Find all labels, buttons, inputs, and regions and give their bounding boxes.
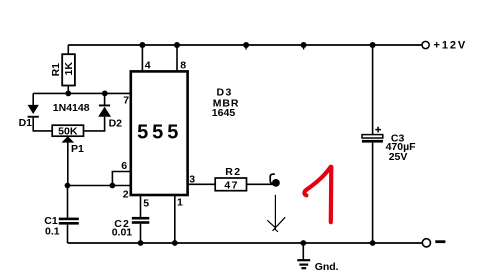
wire C3 top lead [372,45,374,135]
junction dot pin1/rail [172,240,178,246]
wire pin7 node [33,92,131,94]
wire R1 top lead [67,45,69,54]
svg-text:D1: D1 [19,117,33,129]
wire pin6 stub [112,172,130,186]
svg-text:47: 47 [224,179,239,191]
red annotation numeral 1 [304,167,331,222]
svg-text:+12V: +12V [434,40,468,52]
terminal minus [422,239,445,247]
svg-text:50K: 50K [58,126,78,138]
junction dot C2/rail [138,240,144,246]
wire pin3 to R2 [188,183,216,185]
wire pin4 stub [141,45,143,71]
junction dot rail/pin4 [139,42,145,48]
wire C1 top lead [67,186,69,218]
potentiometer P1 body 50K [52,125,83,136]
ground [297,243,310,268]
terminal +12V [422,40,467,52]
capacitor C1 [59,218,79,243]
wire pin2 node [68,185,131,187]
svg-text:555: 555 [137,122,182,144]
wire pin5 stub [140,195,142,217]
svg-text:D2: D2 [109,118,123,130]
junction dot C3/rail [370,240,376,246]
svg-text:Gnd.: Gnd. [315,261,339,273]
svg-text:4: 4 [145,60,151,72]
junction dot rail A [243,42,249,50]
junction dot rail/pin8 [174,42,180,48]
resistor R2 [215,178,246,191]
wire pin8 stub [176,45,178,71]
svg-text:25V: 25V [389,151,408,163]
diode D2 [98,93,111,130]
junction dot ground/rail [300,240,306,246]
svg-text:0.01: 0.01 [112,227,133,239]
svg-text:P1: P1 [71,143,84,155]
pot wiper arrow [61,136,74,185]
svg-text:2: 2 [123,188,129,200]
svg-text:0.1: 0.1 [45,226,60,238]
svg-text:6: 6 [121,160,127,172]
arrow annotation down [267,195,285,232]
junction dot rail/C3 [370,42,376,48]
svg-text:1N4148: 1N4148 [53,102,90,114]
wire top +12V rail [68,44,422,46]
junction dot R1 bottom [65,91,71,97]
resistor R1 [62,54,75,85]
op-amp U1 555 IC body [131,71,188,195]
svg-text:5: 5 [143,198,149,210]
capacitor C2 [132,217,150,243]
svg-text:1K: 1K [63,62,75,76]
svg-text:R1: R1 [50,63,62,77]
svg-text:7: 7 [123,95,129,107]
capacitor C3 polarized [362,127,383,243]
wire bottom rail [68,242,423,244]
wire pin1 stub [174,195,176,243]
node output bracket glyph [270,174,275,184]
junction dot rail B [301,42,307,50]
svg-text:8: 8 [180,59,186,71]
wire D2 to pot [84,130,106,132]
wire R2 to output node [247,183,274,185]
node output dot [272,179,280,187]
diode D1 [28,93,39,130]
junction dot wiper/C1 [65,183,71,189]
svg-text:R2: R2 [225,166,241,178]
svg-text:1: 1 [177,196,183,208]
wire D1 to pot [33,130,53,132]
junction dot pin6 jog [110,183,116,189]
svg-text:1645: 1645 [212,107,236,119]
wire R1 bottom lead [67,86,69,94]
junction dot D2 top [102,91,108,97]
